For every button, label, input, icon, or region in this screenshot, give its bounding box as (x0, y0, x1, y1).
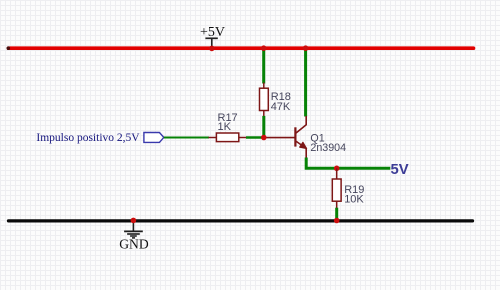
node junction on ground rail at GND (131, 218, 137, 224)
svg-text:1K: 1K (218, 121, 232, 133)
wire R18 to node A (262, 116, 265, 138)
transistor Q1 (NPN) (267, 116, 307, 159)
label +5V (200, 25, 225, 40)
label Impulso positivo 2,5V (36, 132, 140, 144)
node junction on +5V rail at R18 (261, 45, 267, 51)
resistor R19 (332, 168, 341, 208)
ground symbol (124, 221, 143, 238)
wire +5V rail to Q1 collector (304, 49, 307, 117)
svg-text:10K: 10K (344, 194, 364, 206)
wire ground rail (black bus) (9, 219, 473, 222)
wire R17 to node A (246, 136, 264, 139)
node A (base junction) (261, 135, 267, 141)
wire terminal to R17 (164, 137, 209, 139)
svg-text:+5V: +5V (200, 25, 225, 40)
svg-text:5V: 5V (391, 162, 409, 178)
label R17 1K (218, 112, 238, 133)
node B (emitter junction above R19) (334, 166, 340, 172)
resistor R17 (208, 133, 246, 142)
label 5V output (391, 162, 409, 178)
svg-text:47K: 47K (271, 101, 291, 113)
wire +5V power rail (red bus) (7, 46, 474, 50)
power +5V symbol (205, 38, 217, 48)
resistor R18 (260, 83, 269, 117)
node junction on ground rail at R19 (334, 218, 340, 224)
terminal (input flag) (144, 133, 164, 143)
node junction on +5V rail at Q1 collector (303, 45, 309, 51)
svg-text:Impulso positivo 2,5V: Impulso positivo 2,5V (36, 132, 140, 144)
svg-text:GND: GND (119, 237, 149, 252)
label R18 47K (271, 91, 291, 113)
svg-text:2n3904: 2n3904 (310, 142, 346, 154)
label R19 10K (344, 184, 364, 206)
wire Q1 emitter to 5V output (306, 158, 390, 169)
wire +5V rail to R18 (262, 49, 265, 84)
node junction on +5V rail at power symbol (209, 46, 215, 52)
label Q1 2n3904 (310, 132, 346, 154)
wire R19 to ground rail (335, 208, 338, 221)
label GND (119, 237, 149, 252)
